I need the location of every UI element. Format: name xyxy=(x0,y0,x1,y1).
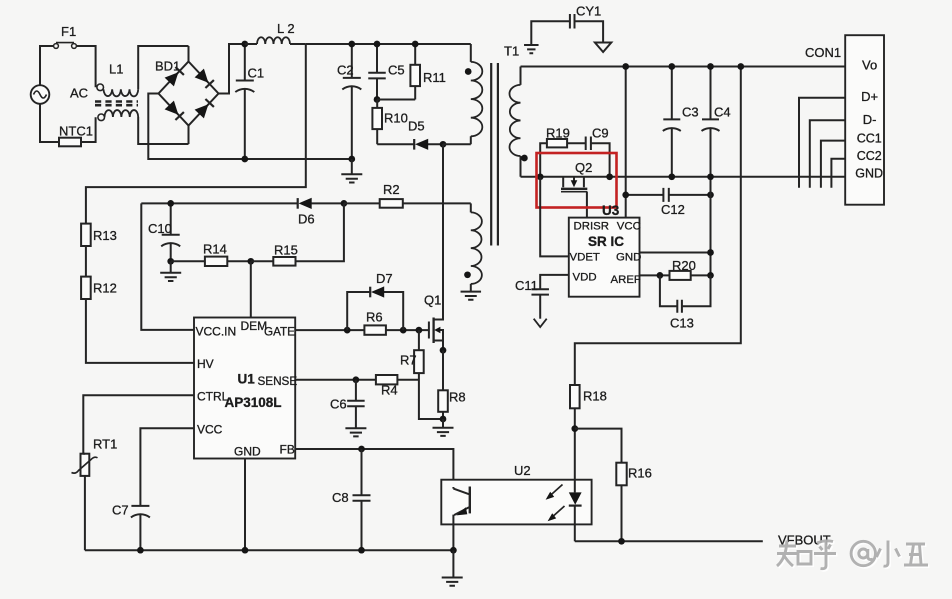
U2 light arrows xyxy=(546,485,565,522)
svg-text:D7: D7 xyxy=(376,271,393,286)
connector CON1 xyxy=(805,35,884,205)
svg-text:C6: C6 xyxy=(330,397,347,412)
snubber resistor R19 xyxy=(537,126,570,181)
wire: CTRL to RT1 xyxy=(83,395,194,453)
svg-text:CY1: CY1 xyxy=(576,4,601,19)
resistor R6 xyxy=(364,310,386,335)
resistor R10 xyxy=(372,100,407,145)
svg-text:GATE: GATE xyxy=(264,326,295,339)
wire: D5 node to primary winding bottom xyxy=(443,143,471,145)
node: Q1 source junction xyxy=(440,347,447,354)
thermistor NTC1 xyxy=(59,124,93,147)
svg-text:R18: R18 xyxy=(583,389,607,404)
wire: GATE net xyxy=(295,329,429,331)
svg-text:HV: HV xyxy=(197,357,214,371)
svg-text:R15: R15 xyxy=(274,243,298,258)
wire: bridge DC+ to top rail xyxy=(219,44,245,94)
wire: SENSE net xyxy=(295,379,376,381)
AC source xyxy=(31,85,88,104)
common-mode choke L1 xyxy=(95,62,138,121)
svg-text:U3: U3 xyxy=(602,203,620,218)
node: snubber/drain junction xyxy=(440,141,447,148)
ground under C2 xyxy=(341,159,362,183)
svg-text:R13: R13 xyxy=(93,228,117,243)
svg-text:C2: C2 xyxy=(337,63,354,78)
diode D7 xyxy=(347,271,403,330)
svg-text:SENSE: SENSE xyxy=(258,375,298,388)
capacitor C11 xyxy=(515,278,549,319)
resistor R8 xyxy=(438,350,465,419)
node: U3 GND bus junction xyxy=(707,249,714,256)
svg-text:F1: F1 xyxy=(61,24,76,39)
capacitor C8 xyxy=(332,449,371,554)
svg-text:C9: C9 xyxy=(592,126,609,141)
wire: F1 to L1 top winding xyxy=(76,46,95,87)
optocoupler U2 xyxy=(441,463,591,524)
node: SENSE/C6 junction xyxy=(353,376,360,383)
diode D6 xyxy=(298,198,344,227)
wire: CON1 D- stub xyxy=(810,120,845,188)
wire: Vo rail feed to R18 xyxy=(575,67,741,386)
resistor R13 xyxy=(81,224,117,246)
svg-text:NTC1: NTC1 xyxy=(59,124,93,139)
svg-text:C13: C13 xyxy=(670,316,694,331)
wire: CON1 D+ stub xyxy=(799,98,845,188)
wire: HV bleeder from DC+ rail xyxy=(86,44,306,224)
wire: secondary ground return rail xyxy=(521,176,846,178)
resistor R15 xyxy=(251,203,344,265)
wire: VFBOUT line xyxy=(575,540,763,542)
svg-text:VDD: VDD xyxy=(573,272,597,284)
svg-text:D-: D- xyxy=(863,112,877,127)
svg-text:U1: U1 xyxy=(238,372,256,387)
node: gate net junctions xyxy=(344,327,351,334)
svg-text:GND: GND xyxy=(855,166,883,180)
resistor R12 xyxy=(81,277,117,299)
wire: R13 to R12 xyxy=(85,246,87,277)
svg-text:R16: R16 xyxy=(628,466,652,481)
node: FB/C8 junction xyxy=(358,446,365,453)
svg-text:T1: T1 xyxy=(504,44,519,59)
wire: U3 VCC pin up to Vo rail xyxy=(625,67,627,218)
wire: U3 VDD to C11 xyxy=(540,275,569,289)
diode D5 xyxy=(377,119,443,150)
wire: VCC.IN node line xyxy=(141,203,297,330)
svg-text:AC: AC xyxy=(70,86,88,101)
node: D6/R2 junction xyxy=(341,200,348,207)
wire: primary bottom rail xyxy=(85,549,454,551)
wire: R12 to HV pin xyxy=(86,299,194,363)
ground under C10 xyxy=(160,261,181,281)
wire: AC top to fuse F1 xyxy=(40,46,54,85)
IC U3 SR controller xyxy=(569,203,642,297)
U2 LED xyxy=(569,429,582,542)
ground under R8 xyxy=(433,419,454,436)
svg-text:R4: R4 xyxy=(381,383,398,398)
svg-text:R8: R8 xyxy=(449,390,466,405)
svg-text:BD1: BD1 xyxy=(155,59,180,74)
resistor R4 xyxy=(376,375,419,398)
svg-text:R2: R2 xyxy=(383,182,400,197)
svg-text:AP3108L: AP3108L xyxy=(225,395,282,410)
svg-text:VCC: VCC xyxy=(197,423,223,437)
wire: DEM pin xyxy=(250,261,252,317)
svg-text:C3: C3 xyxy=(682,105,699,120)
capacitor C7 xyxy=(112,503,150,554)
svg-text:Q2: Q2 xyxy=(575,160,592,175)
svg-text:L 2: L 2 xyxy=(277,21,295,36)
svg-text:D+: D+ xyxy=(861,89,878,104)
resistor R2 xyxy=(344,182,471,208)
capacitor C12 xyxy=(622,188,714,217)
wire: U3 GND pin to right bus xyxy=(640,252,711,254)
wire: NTC1 to L1 bottom winding xyxy=(81,117,96,142)
wire: right bus vertical C4 leg down to C13 xyxy=(710,177,712,306)
svg-text:R10: R10 xyxy=(384,111,408,126)
resistor R20 xyxy=(640,258,714,280)
wire: CON1 CC2 stub xyxy=(831,159,845,188)
svg-text:R14: R14 xyxy=(203,242,227,257)
watermark xyxy=(777,541,929,571)
svg-text:C1: C1 xyxy=(248,66,265,81)
svg-text:VCC: VCC xyxy=(617,221,641,233)
svg-text:R12: R12 xyxy=(93,281,117,296)
wire: D5 node down to Q1 drain xyxy=(442,144,444,319)
capacitor CY1 xyxy=(531,4,603,45)
node: R16/LED junction xyxy=(618,538,625,545)
node: DEM divider junction xyxy=(247,258,254,265)
node: Vo rail feed junction xyxy=(737,63,744,70)
svg-text:SR IC: SR IC xyxy=(588,234,624,249)
U2 phototransistor xyxy=(453,487,469,551)
svg-text:DRISR: DRISR xyxy=(574,221,609,233)
svg-text:AREF: AREF xyxy=(611,274,641,286)
resistor R14 xyxy=(171,242,251,267)
capacitor C1 xyxy=(235,41,264,163)
svg-text:GND: GND xyxy=(234,445,261,459)
svg-text:D5: D5 xyxy=(408,119,425,134)
capacitor C2 xyxy=(337,41,361,163)
secondary earth symbol for CY1 xyxy=(595,43,611,53)
transformer T1 core xyxy=(491,63,498,246)
transformer T1 primary winding xyxy=(465,44,482,144)
wire: RT1 to bottom rail xyxy=(83,454,85,551)
svg-text:R19: R19 xyxy=(546,126,570,141)
svg-text:C7: C7 xyxy=(112,503,129,518)
svg-text:VCC.IN: VCC.IN xyxy=(196,325,237,339)
svg-text:D6: D6 xyxy=(298,212,315,227)
wire: FB net xyxy=(295,449,453,487)
svg-text:VDET: VDET xyxy=(570,252,600,264)
wire: U1 GND pin to bottom rail xyxy=(244,459,246,551)
resistor R7 xyxy=(400,330,443,419)
svg-text:RT1: RT1 xyxy=(93,437,117,452)
wire: AC bottom to NTC1 xyxy=(40,104,59,142)
wire: bridge DC- rail xyxy=(148,94,351,160)
node: emitter/bottom-rail junction xyxy=(450,547,457,554)
ground under auxiliary winding xyxy=(461,284,482,300)
svg-text:CON1: CON1 xyxy=(805,45,841,60)
svg-text:R11: R11 xyxy=(423,70,446,85)
svg-text:C11: C11 xyxy=(515,278,538,293)
capacitor C10 xyxy=(148,200,180,265)
node: GND rail junction xyxy=(242,547,249,554)
capacitor C4 xyxy=(702,63,731,180)
svg-text:C4: C4 xyxy=(714,105,731,120)
svg-text:C10: C10 xyxy=(148,221,172,236)
wire: secondary Vo+ rail xyxy=(521,66,846,68)
resistor R11 xyxy=(377,41,446,100)
ground under C6 xyxy=(345,428,366,436)
resistor R16 xyxy=(575,429,652,542)
capacitor C6 xyxy=(330,380,365,428)
svg-text:CC2: CC2 xyxy=(857,149,882,163)
capacitor C3 xyxy=(663,63,699,180)
wire: VCC pin to C7 xyxy=(140,428,194,506)
svg-text:R6: R6 xyxy=(366,310,383,325)
svg-text:C8: C8 xyxy=(332,490,349,505)
transformer T1 secondary winding xyxy=(509,67,527,177)
primary ground for CY1 xyxy=(524,45,539,53)
capacitor C13 xyxy=(660,275,711,330)
bridge rectifier BD1 xyxy=(155,46,219,144)
inductor L2 xyxy=(245,21,306,44)
fuse F1 xyxy=(54,24,77,48)
wire: Q2 gate to U3 DRISR pin xyxy=(586,192,588,218)
svg-text:FB: FB xyxy=(280,443,295,457)
wire: L1 top winding to bridge top xyxy=(138,46,188,89)
wire: L1 bottom winding to bridge bottom xyxy=(138,117,188,144)
svg-text:GND: GND xyxy=(616,252,641,264)
wire: CON1 CC1 stub xyxy=(821,141,845,188)
resistor R18 xyxy=(570,385,607,432)
svg-text:R7: R7 xyxy=(400,353,417,368)
svg-text:R20: R20 xyxy=(672,258,696,273)
svg-text:C12: C12 xyxy=(661,202,685,217)
thermistor RT1 xyxy=(72,437,118,476)
arrow ground under C11 xyxy=(534,319,547,327)
svg-text:U2: U2 xyxy=(514,463,531,478)
MOSFET Q1 xyxy=(424,144,443,350)
node: R8 bottom junction xyxy=(440,416,447,423)
wire: U3 VDET to drain node xyxy=(540,177,569,257)
MOSFET Q2 (synchronous rectifier) xyxy=(561,160,592,192)
capacitor C5 xyxy=(368,41,404,103)
wire: top rail L2 to primary winding xyxy=(306,43,471,45)
snubber capacitor C9 xyxy=(567,126,613,181)
svg-text:Q1: Q1 xyxy=(424,293,441,308)
ground under U2 transistor xyxy=(442,550,463,586)
node: Vo rail / U3 VCC junction xyxy=(622,63,629,70)
svg-text:CC1: CC1 xyxy=(857,132,882,146)
highlight box around Q2 xyxy=(537,153,617,208)
svg-text:Vo: Vo xyxy=(862,58,877,73)
svg-text:L1: L1 xyxy=(109,62,123,77)
IC U1 AP3108L xyxy=(194,318,297,459)
transformer T1 auxiliary winding xyxy=(464,203,482,284)
svg-text:C5: C5 xyxy=(388,63,405,78)
